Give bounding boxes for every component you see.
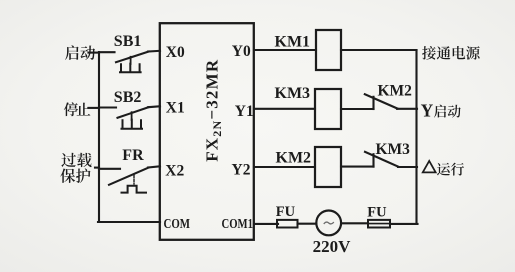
wire KM2 coil to KM3 contact — [341, 166, 374, 168]
svg-text:KM3: KM3 — [376, 141, 411, 158]
wire KM3 contact to right rail — [398, 166, 417, 168]
contactor coil KM1 — [316, 30, 341, 70]
svg-text:KM2: KM2 — [276, 150, 312, 167]
wire AC source to FU2 — [341, 222, 368, 224]
wire KM1 coil to right rail — [341, 49, 417, 51]
wire rail to SB1 — [99, 51, 115, 53]
svg-text:X0: X0 — [166, 44, 185, 61]
svg-text:COM1: COM1 — [222, 216, 254, 231]
svg-text:X1: X1 — [166, 100, 185, 117]
wire Y2 to KM2 coil — [254, 166, 315, 168]
wire rail to FR — [99, 168, 120, 170]
label 过载 (overload) — [61, 153, 91, 167]
wire SB1 to X0 — [148, 50, 160, 53]
wire 停止 tick — [89, 107, 100, 109]
svg-text:FU: FU — [276, 204, 296, 220]
label 启动 (start) — [65, 45, 95, 60]
wire Y1 to KM3 coil — [254, 108, 315, 110]
svg-text:KM2: KM2 — [378, 82, 413, 99]
svg-text:SB2: SB2 — [114, 89, 142, 106]
wire SB2 to X1 — [148, 105, 160, 108]
pushbutton SB2 (stop, NO drawn) — [118, 107, 149, 129]
interlock contact KM3 (NC) — [365, 152, 399, 167]
fuse FU2 — [368, 220, 390, 228]
svg-text:X2: X2 — [165, 163, 184, 180]
wire FR to X2 — [148, 166, 160, 167]
label 保护 (protection) — [60, 168, 90, 183]
AC source 220V — [316, 211, 341, 236]
contactor coil KM2 — [315, 147, 341, 187]
fuse FU1 — [277, 220, 298, 228]
pushbutton SB1 (start, NO) — [116, 52, 149, 73]
svg-text:FX2N−32MR: FX2N−32MR — [202, 59, 224, 162]
wire 启动 tick — [89, 52, 100, 54]
label 接通电源 (power on) — [422, 46, 480, 60]
svg-text:FR: FR — [122, 147, 144, 164]
wire COM1 to FU1 — [254, 223, 278, 225]
label △ of △运行 — [423, 161, 436, 173]
label 停止 (stop) — [64, 102, 91, 116]
wire rail to SB2 — [99, 106, 116, 108]
svg-text:KM1: KM1 — [275, 34, 311, 51]
label 启动 of Y启动 — [434, 105, 461, 118]
overload relay contact FR — [109, 168, 149, 193]
left common rail wire — [98, 52, 100, 222]
svg-text:FU: FU — [367, 205, 387, 221]
svg-text:Y0: Y0 — [232, 43, 251, 60]
interlock contact KM2 (NC) — [365, 94, 398, 109]
svg-text:Y1: Y1 — [235, 103, 254, 120]
contactor coil KM3 — [315, 89, 341, 129]
wire FU2 to right rail — [390, 223, 418, 225]
label 运行 (run) — [437, 163, 464, 176]
PLC U1 FX2N-32MR box — [160, 23, 254, 240]
svg-text:Y2: Y2 — [232, 162, 251, 179]
wire KM3 coil to KM2 contact — [341, 108, 374, 110]
svg-text:220V: 220V — [313, 237, 352, 256]
wire COM to left rail — [98, 221, 160, 223]
right rail wire — [415, 50, 417, 224]
wire Y0 to KM1 coil — [254, 49, 316, 51]
svg-text:Y: Y — [421, 101, 434, 121]
svg-text:KM3: KM3 — [275, 85, 311, 102]
svg-text:SB1: SB1 — [114, 33, 142, 50]
wire KM2 contact to right rail — [397, 108, 417, 110]
svg-text:COM: COM — [164, 216, 191, 231]
wire FU1 to AC source — [298, 223, 317, 225]
wire 过载保护 tick — [95, 167, 99, 169]
